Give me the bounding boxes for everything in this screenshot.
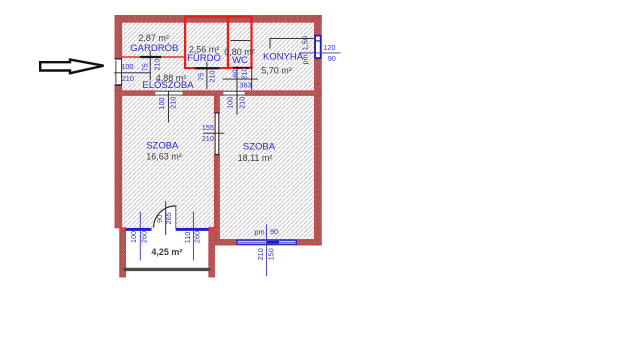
- svg-text:260: 260: [140, 231, 149, 243]
- bathroom/wc bold outline: furdo U1: [185, 17, 228, 69]
- wall: left outer upper (above entrance door): [115, 16, 122, 60]
- balcony railing: [123, 268, 210, 271]
- szoba1 door dim 100/210: [157, 91, 178, 123]
- szoba2 door dim 100/210: [226, 97, 247, 109]
- french door blue sill right segment: [176, 228, 209, 231]
- wall: hall/rooms band middle segment: [183, 91, 224, 96]
- svg-text:210: 210: [153, 58, 162, 70]
- wc interior line: [230, 39, 250, 41]
- gardrob door dim 75/210: [141, 51, 162, 81]
- window W1 in right wall (konyha): [315, 35, 322, 58]
- wc door dims cluster: [223, 66, 258, 115]
- svg-text:90: 90: [270, 227, 278, 236]
- svg-text:100: 100: [129, 231, 138, 243]
- interior floor hatch: szoba 1: [122, 95, 215, 227]
- svg-text:155: 155: [202, 123, 214, 132]
- szoba2 window dim pm.90 210/150: [254, 224, 278, 276]
- svg-text:KONYHA: KONYHA: [263, 52, 304, 63]
- partition opening dim 155/210: [202, 123, 225, 143]
- partition opening between szobas: [214, 113, 219, 155]
- svg-text:210: 210: [122, 74, 134, 83]
- svg-text:100: 100: [121, 62, 133, 71]
- svg-text:SZOBA: SZOBA: [243, 142, 276, 153]
- hall door 1 opening (to szoba 1): [155, 91, 182, 96]
- svg-text:210: 210: [207, 70, 216, 82]
- hall door 2 opening (to szoba 2): [223, 91, 244, 96]
- svg-text:60: 60: [231, 69, 240, 77]
- wall: hall/rooms band left segment: [115, 91, 155, 96]
- svg-text:WC: WC: [232, 55, 248, 66]
- svg-text:100: 100: [226, 97, 235, 109]
- svg-text:GARDRÓB: GARDRÓB: [130, 43, 178, 54]
- svg-text:90: 90: [155, 215, 164, 223]
- svg-text:210: 210: [240, 67, 249, 79]
- svg-text:110: 110: [183, 232, 192, 244]
- bathroom/wc bold outline: wc: [228, 17, 252, 68]
- svg-text:363: 363: [239, 81, 251, 90]
- wall: right outer: [315, 16, 322, 246]
- balcony dim lines 100/260: [129, 212, 149, 261]
- svg-text:150: 150: [267, 248, 276, 260]
- konyha window dim 120/90, pm: 1,50: [300, 36, 341, 64]
- entrance door dim label 100/210: [114, 59, 150, 85]
- svg-text:SZOBA: SZOBA: [146, 140, 179, 151]
- balcony dim lines 110/260: [183, 212, 202, 261]
- svg-text:210: 210: [202, 134, 214, 143]
- interior floor hatch: top strip (gardrob, furdo, wc, konyha, eloszoba): [122, 22, 315, 91]
- wc door leaf (black): [233, 67, 250, 69]
- wall: left outer lower (below entrance door): [115, 84, 122, 228]
- svg-text:120: 120: [323, 43, 335, 52]
- svg-text:100: 100: [157, 97, 166, 109]
- svg-text:16,63 m²: 16,63 m²: [146, 152, 182, 162]
- wall: balcony left: [120, 228, 126, 277]
- svg-text:2,87 m²: 2,87 m²: [138, 33, 169, 43]
- gardrob/eloszoba partition line: [122, 56, 185, 58]
- wall: balcony right: [209, 228, 215, 277]
- furdo door leaf (black): [195, 67, 219, 69]
- svg-text:90: 90: [328, 54, 336, 63]
- svg-text:5,70 m²: 5,70 m²: [261, 66, 292, 76]
- balcony door leaf: [175, 206, 177, 228]
- balcony door swing arc: [154, 206, 176, 228]
- balcony door dim 90/265: [155, 201, 173, 235]
- wall: partition between szoba1 and szoba2: [214, 95, 219, 245]
- entrance door opening: [114, 59, 122, 85]
- interior floor hatch: szoba 2: [220, 95, 315, 239]
- konyha window leader: [270, 39, 314, 49]
- svg-text:pm.: pm.: [254, 228, 266, 237]
- svg-text:FÜRDŐ: FÜRDŐ: [187, 53, 221, 64]
- svg-text:265: 265: [164, 212, 173, 224]
- svg-text:210: 210: [238, 97, 247, 109]
- svg-text:4,25 m²: 4,25 m²: [151, 247, 182, 257]
- svg-text:18,11 m²: 18,11 m²: [238, 153, 273, 163]
- wall: szoba2 bottom outer: [214, 240, 321, 246]
- entrance arrow: [40, 60, 103, 74]
- window W2 in szoba2 bottom wall: [237, 240, 297, 245]
- svg-text:75: 75: [141, 63, 150, 71]
- svg-text:210: 210: [256, 248, 265, 260]
- gardrob door leaf (black): [140, 56, 161, 58]
- svg-text:260: 260: [193, 231, 202, 243]
- french door blue sill left segment (szoba1/balcony): [124, 228, 152, 231]
- furdo door dim 75/210: [196, 62, 216, 89]
- wall: top outer: [115, 16, 321, 23]
- svg-text:75: 75: [196, 73, 205, 81]
- wall: hall/rooms band right segment: [245, 91, 322, 96]
- svg-text:210: 210: [169, 97, 178, 109]
- balcony wall top caps: [120, 227, 126, 232]
- svg-text:ELŐSZOBA: ELŐSZOBA: [142, 80, 194, 91]
